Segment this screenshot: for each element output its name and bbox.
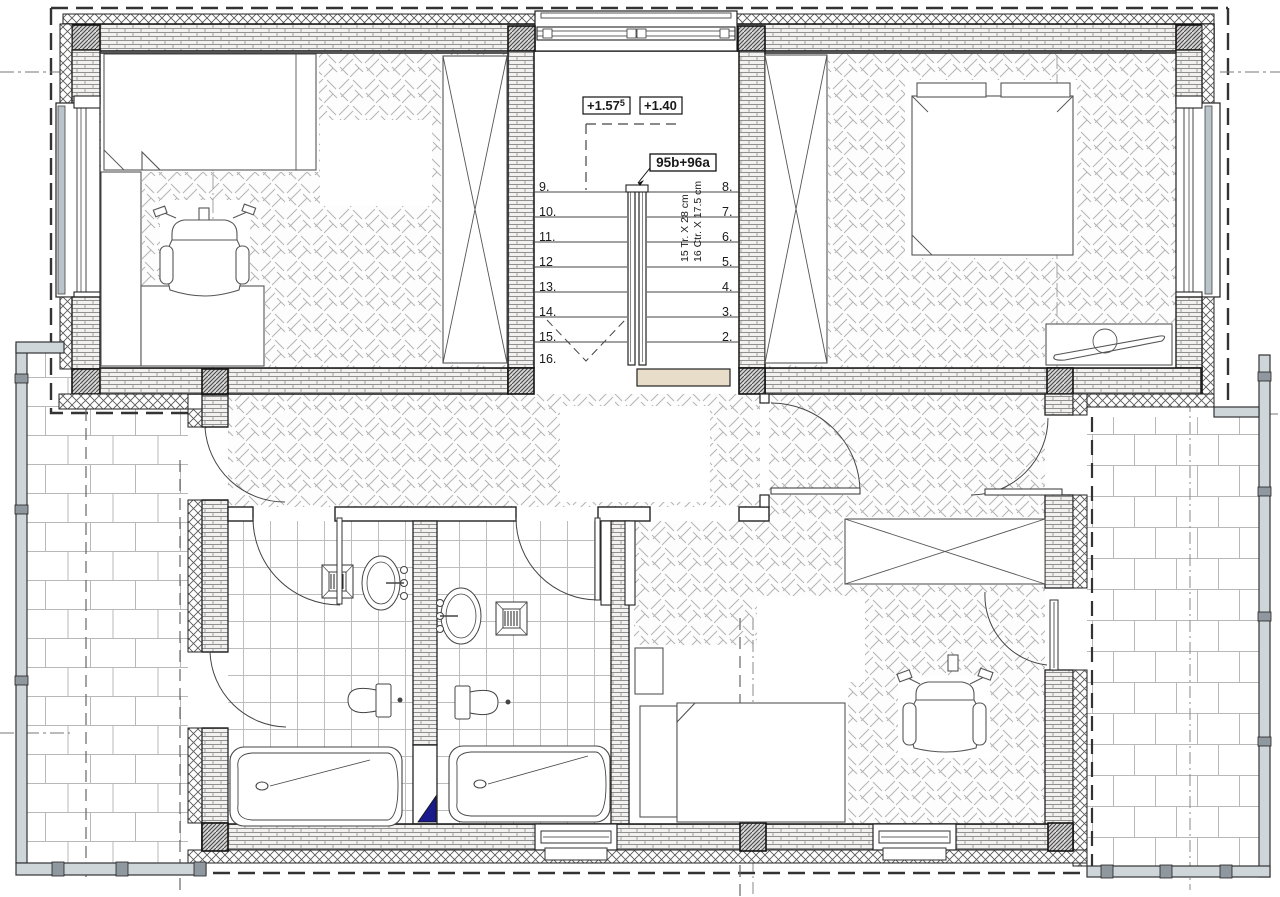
toilet baie 2 xyxy=(455,686,510,719)
svg-text:+1.575: +1.575 xyxy=(587,98,625,113)
axis stub top left xyxy=(0,71,60,73)
wall middle dormitor2 xyxy=(765,368,1201,394)
crosshatch band below middle wall left xyxy=(59,394,188,409)
wall baie3-baie2 divider xyxy=(413,521,437,745)
stair direction dashed V xyxy=(547,320,625,361)
nightstand dormitor 3 xyxy=(635,648,663,694)
pilaster stair-left bottom xyxy=(508,368,534,394)
svg-text:16 Ctr. X 17.5 cm: 16 Ctr. X 17.5 cm xyxy=(692,181,704,262)
window f05 right xyxy=(1176,96,1220,304)
dormitor3 right wall segments xyxy=(1045,394,1073,415)
bottom wall main band xyxy=(202,824,1073,850)
wardrobe dormitor 4 xyxy=(443,56,507,363)
svg-text:12: 12 xyxy=(539,255,553,269)
svg-text:+1.40: +1.40 xyxy=(644,98,677,113)
svg-text:15 Tr. X 28 cm: 15 Tr. X 28 cm xyxy=(679,194,691,262)
svg-text:10.: 10. xyxy=(539,205,556,219)
dashed boundary bottom xyxy=(188,872,1092,874)
shower baie 2 xyxy=(496,602,527,635)
stair steps left flight xyxy=(535,192,627,342)
parapet balcon2 bottom xyxy=(1087,866,1270,877)
svg-text:3.: 3. xyxy=(722,305,732,319)
pilaster bottom-left xyxy=(202,823,228,851)
svg-text:8.: 8. xyxy=(722,180,732,194)
corridor bottom wall segments xyxy=(228,507,253,521)
window f05 left xyxy=(56,96,100,304)
pilaster middle-left xyxy=(202,369,228,394)
door UE02 top arc xyxy=(205,428,285,502)
wall hol-dormitor3 vertical xyxy=(760,394,769,403)
svg-text:6.: 6. xyxy=(722,230,732,244)
door UE03 arc + leaf xyxy=(971,418,1048,495)
wardrobe dormitor 2 xyxy=(765,55,827,363)
door UI01 dormitor3 arc + leaf xyxy=(771,403,860,492)
dashed line balcony2 left xyxy=(1091,417,1093,868)
pilaster top-left corner xyxy=(72,25,100,50)
pilaster stair-right top xyxy=(738,26,765,51)
svg-text:9.: 9. xyxy=(539,180,549,194)
wall top inner edge dormitor4 xyxy=(100,52,508,54)
blue triangle shaft xyxy=(418,796,436,822)
svg-text:4.: 4. xyxy=(722,280,732,294)
WHITE PADS under furniture and labels xyxy=(101,53,319,172)
stair steps right flight xyxy=(647,192,739,342)
parquet floor dormitor 3 upper strip xyxy=(769,394,1045,521)
wall top crosshatch band xyxy=(63,14,1214,24)
dormitor3 right wall crosshatch xyxy=(1073,394,1087,415)
armchair dormitor 3 xyxy=(897,655,993,752)
door UE02 top jamb lines xyxy=(202,427,228,500)
pilaster stair-left top xyxy=(508,26,535,51)
parquet floor dormitor 2 xyxy=(765,51,1176,368)
shower baie 3 xyxy=(322,565,353,598)
pilaster right-bottom xyxy=(1176,368,1202,394)
svg-text:11.: 11. xyxy=(539,230,555,244)
parapet balcon2 right xyxy=(1259,355,1270,877)
svg-text:5.: 5. xyxy=(722,255,732,269)
wall top inner edge dormitor2 xyxy=(765,52,1176,54)
parapet posts balcon1 xyxy=(15,374,28,383)
pilaster stair-right bottom xyxy=(739,368,765,394)
wall stair left xyxy=(508,51,534,368)
window stair top xyxy=(535,11,737,51)
svg-text:15.: 15. xyxy=(539,330,556,344)
axis stub right mid xyxy=(1214,413,1280,415)
axis dashed x740 xyxy=(739,618,741,897)
shaft below divider xyxy=(413,745,437,824)
parapet balcon1 bottom xyxy=(16,863,206,875)
wardrobe dormitor 3 xyxy=(845,519,1045,584)
tile floor baie 3 xyxy=(228,521,413,824)
bed dormitor 4 xyxy=(104,54,316,170)
svg-text:16.: 16. xyxy=(539,352,556,366)
svg-text:2.: 2. xyxy=(722,330,732,344)
pilaster top-right corner xyxy=(1176,25,1203,50)
stair center rail xyxy=(628,187,635,365)
svg-text:95b+96a: 95b+96a xyxy=(656,155,710,170)
parapet posts balcon2 xyxy=(1258,372,1271,381)
label +1.40 xyxy=(640,97,682,114)
dresser tv dormitor 2 xyxy=(1046,324,1172,365)
axis dashdot x1057 dormitor2 xyxy=(1056,55,1058,368)
door UE04 arc xyxy=(985,592,1047,665)
wall baie2-dormitor3 xyxy=(611,521,629,824)
dashed boundary top xyxy=(51,7,1228,9)
label +1.57 xyxy=(583,97,630,114)
sink baie 3 xyxy=(362,556,408,610)
chair dormitor 4 xyxy=(153,204,255,296)
door UI02 baie2 arc + leaf xyxy=(516,518,598,600)
door UE04 pane xyxy=(1050,600,1058,670)
pilaster bottom-mid xyxy=(740,823,766,851)
tile floor balcon 1 xyxy=(27,350,188,863)
svg-text:13.: 13. xyxy=(539,280,556,294)
pilaster bottom-right xyxy=(1048,823,1073,851)
dashed boundary right xyxy=(1227,8,1229,417)
parquet floor dormitor 3 xyxy=(634,521,1045,824)
tile floor baie 2 xyxy=(437,521,611,824)
axis stub top right xyxy=(1220,71,1280,73)
window f07 xyxy=(873,824,956,860)
parapet balcon1 top cap xyxy=(16,342,64,353)
bottom wall crosshatch band xyxy=(188,850,1087,863)
wall right above window xyxy=(1202,24,1214,103)
parapet balcon2 top cap xyxy=(1214,407,1259,417)
sink baie 2 xyxy=(437,588,482,644)
wall middle dormitor4 xyxy=(100,368,508,394)
stair step numbers right xyxy=(722,180,732,344)
axis dashdot x1190 xyxy=(1189,400,1191,890)
svg-text:7.: 7. xyxy=(722,205,732,219)
pilaster left-bottom xyxy=(72,369,100,394)
bathtub baie 3 xyxy=(230,747,402,826)
axis dashdot x753 xyxy=(752,618,754,897)
label 95b+96a xyxy=(638,154,716,186)
door UI01 baie3 arc + leaf xyxy=(253,518,340,605)
parquet floor dormitor 4 xyxy=(100,51,508,368)
axis dashed x180 xyxy=(179,460,181,893)
bed dormitor 3 xyxy=(640,703,845,822)
toilet baie 3 xyxy=(348,684,402,717)
tile floor balcon 2 xyxy=(1087,417,1259,866)
crosshatch band below middle wall right xyxy=(1073,394,1214,407)
bed dormitor 2 xyxy=(912,83,1073,255)
wall stub baie2 niche xyxy=(601,521,611,605)
stair landing strip xyxy=(637,369,730,386)
lower-left exterior wall crosshatch xyxy=(188,409,202,427)
window f06 xyxy=(535,824,617,860)
wall left above window xyxy=(60,24,72,103)
svg-text:14.: 14. xyxy=(539,305,556,319)
bathtub baie 2 xyxy=(449,746,610,822)
stair trap dashed outline xyxy=(586,124,680,190)
wall right below window xyxy=(1202,297,1214,407)
axis stub left mid xyxy=(0,732,70,734)
axis dashed balcon1 xyxy=(85,352,87,880)
stair step numbers left xyxy=(539,180,556,366)
wall left below window xyxy=(60,297,72,369)
axis dashdot x213 dormitor4 xyxy=(212,55,214,368)
dashed boundary left xyxy=(51,8,188,413)
wall stair right xyxy=(739,51,765,368)
door UE02 bottom jamb lines xyxy=(202,652,228,728)
wall top main band xyxy=(63,24,1214,51)
pilaster middle-right xyxy=(1047,368,1073,394)
door UE02 bottom arc xyxy=(210,652,286,727)
parquet floor hol corridor xyxy=(228,394,760,507)
parapet balcon1 left xyxy=(16,345,27,863)
lower-left wall inner layer xyxy=(202,395,228,427)
desk dormitor 4 xyxy=(101,172,264,366)
door UE03 jambs xyxy=(1045,415,1087,495)
